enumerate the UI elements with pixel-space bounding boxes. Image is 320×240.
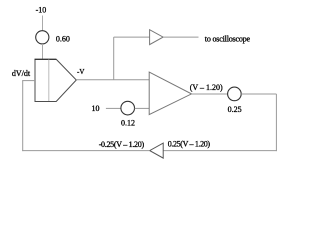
svg-text:0.25(V – 1.20): 0.25(V – 1.20) [168, 140, 211, 149]
svg-text:-10: -10 [36, 6, 47, 15]
svg-text:(V – 1.20): (V – 1.20) [190, 83, 223, 92]
svg-text:-0.25(V – 1.20): -0.25(V – 1.20) [99, 140, 145, 149]
svg-text:0.60: 0.60 [56, 35, 70, 44]
svg-text:0.12: 0.12 [121, 119, 135, 128]
svg-text:0.25: 0.25 [228, 105, 242, 114]
svg-text:-V: -V [77, 68, 84, 76]
svg-text:10: 10 [92, 104, 100, 113]
svg-text:dV/dt: dV/dt [12, 69, 31, 78]
svg-text:to oscilloscope: to oscilloscope [205, 35, 251, 44]
